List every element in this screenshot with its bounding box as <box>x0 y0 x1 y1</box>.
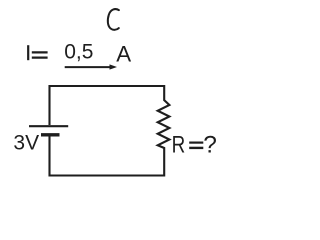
svg-text:A: A <box>116 42 131 67</box>
svg-text:?: ? <box>203 132 217 159</box>
svg-text:3V: 3V <box>13 132 39 155</box>
svg-text:R: R <box>172 130 186 158</box>
svg-text:0,5: 0,5 <box>64 41 93 64</box>
